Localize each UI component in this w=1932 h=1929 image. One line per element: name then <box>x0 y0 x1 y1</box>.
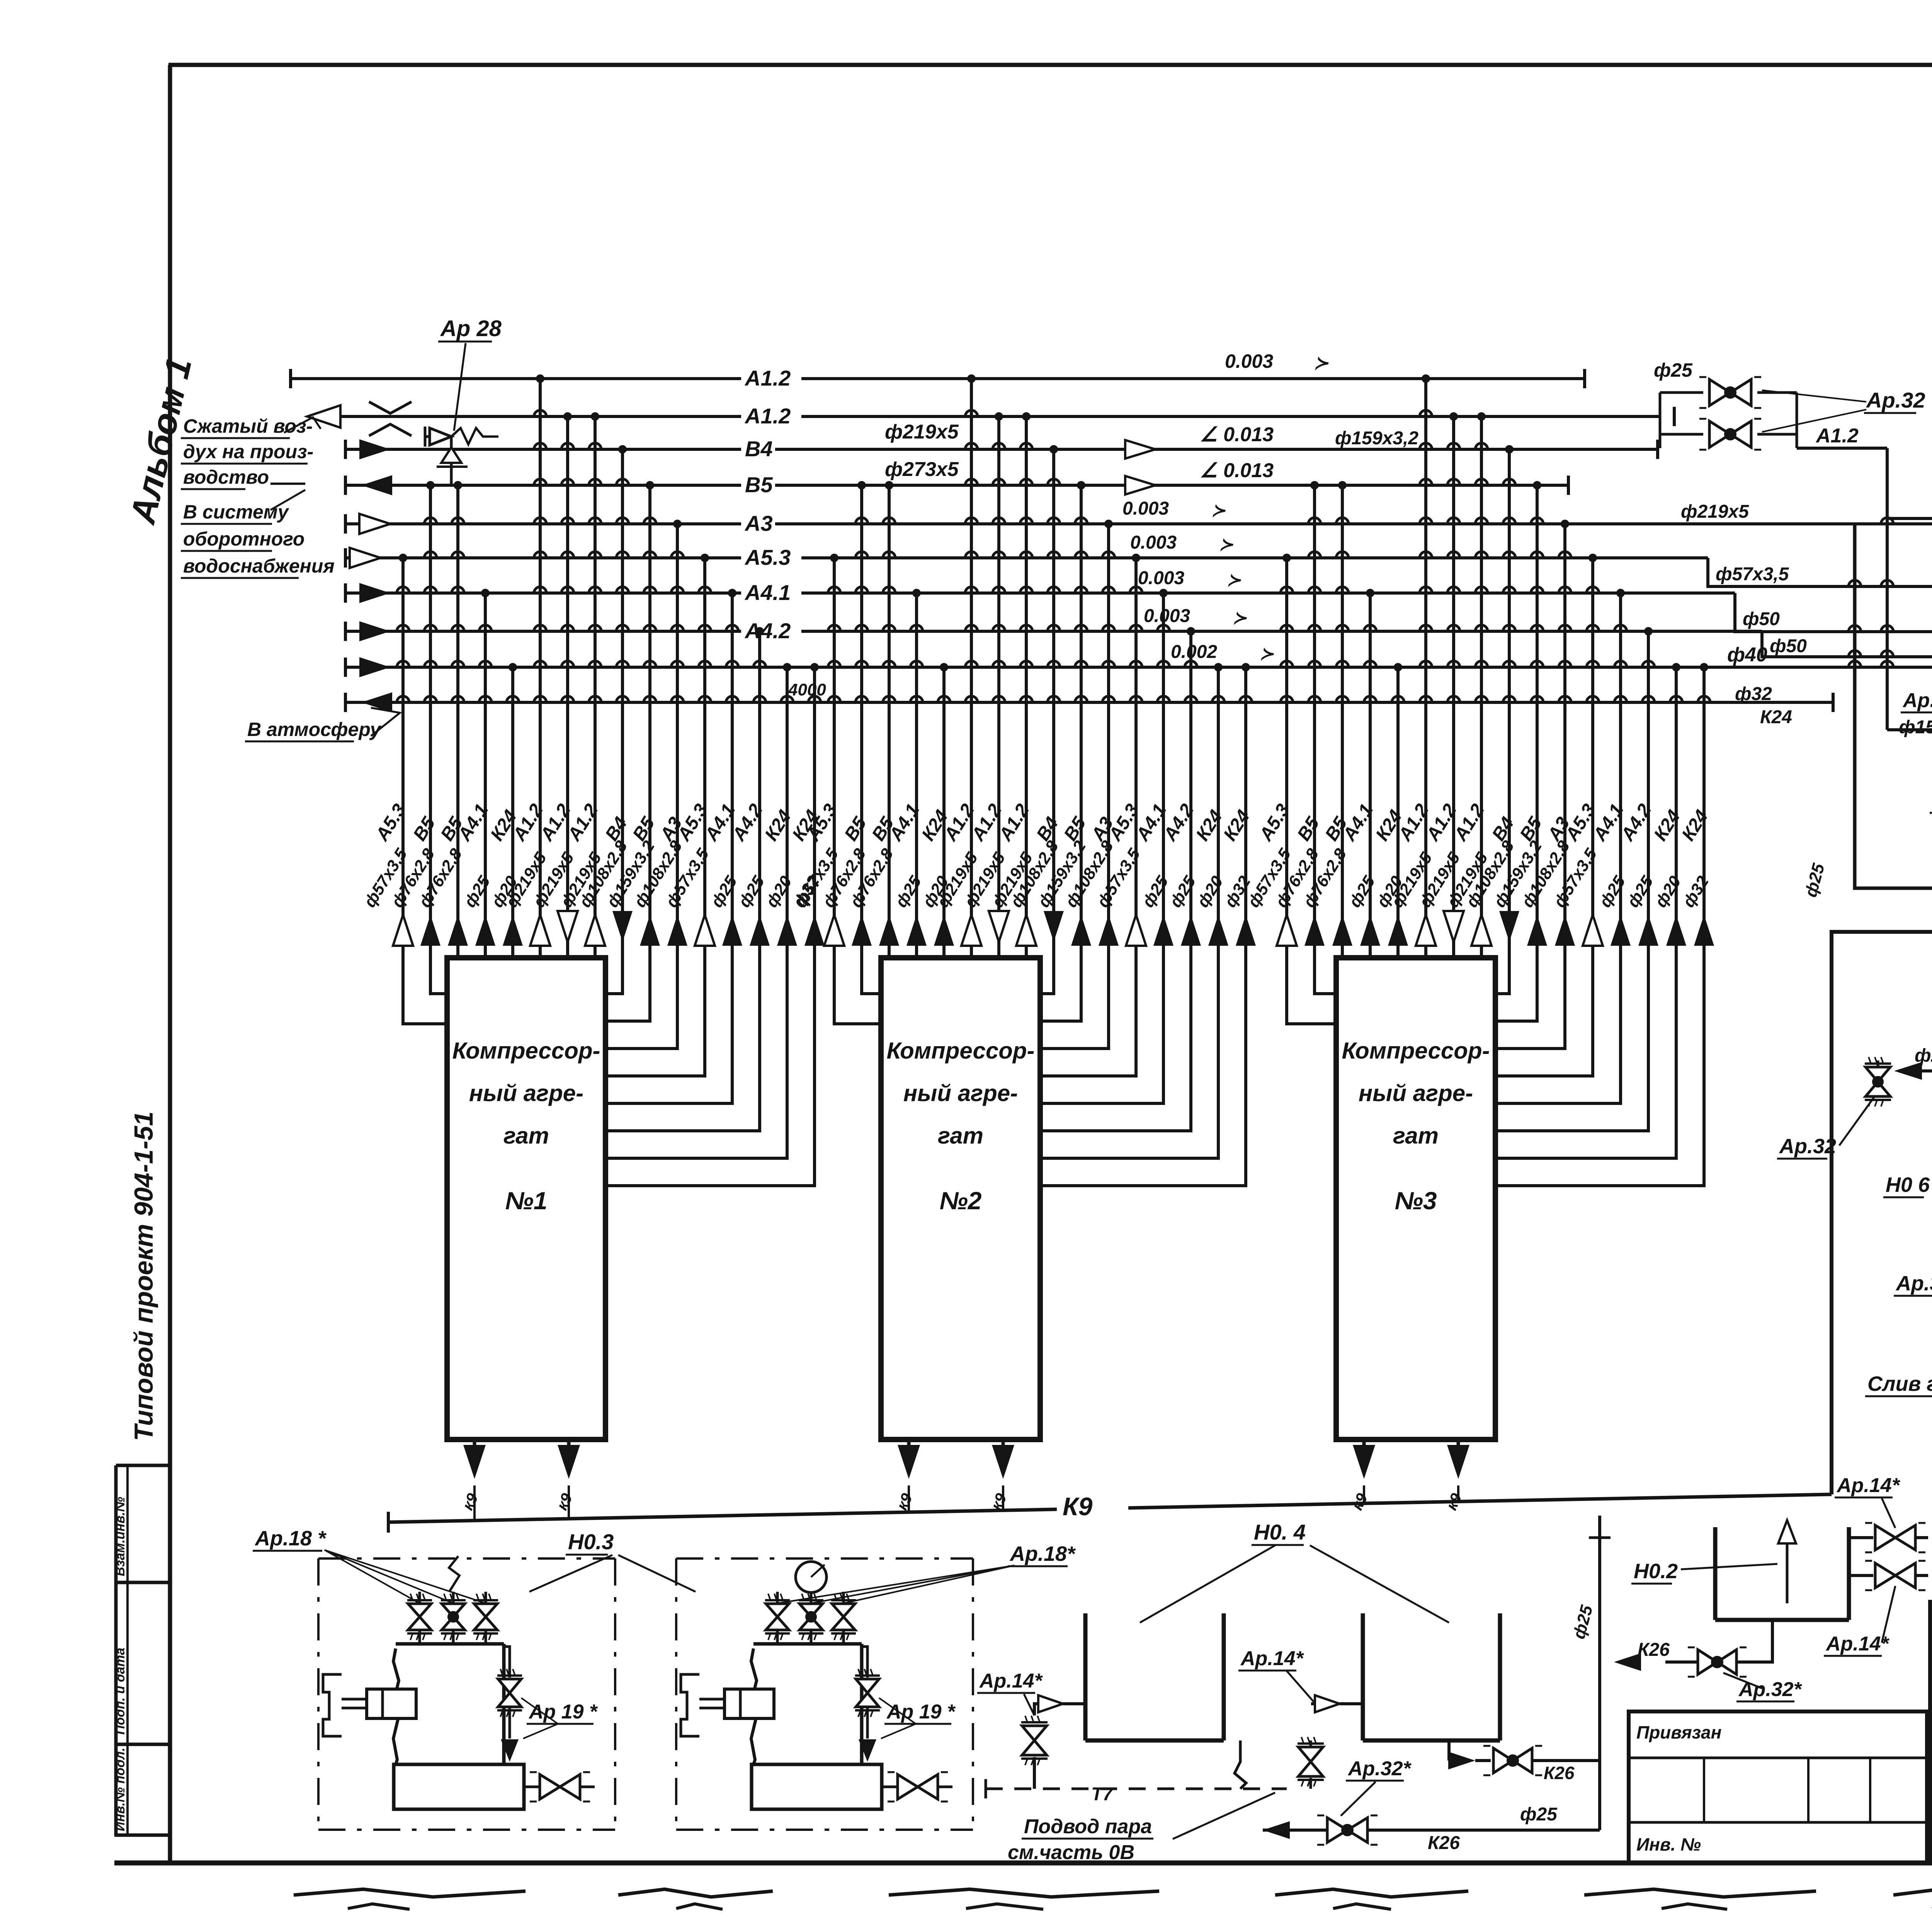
junction dot К24 <box>1242 663 1250 671</box>
drop line К24 unit 3 <box>1495 667 1676 1158</box>
crossing hops А1.2 <box>1020 443 1032 449</box>
drive piston <box>323 1674 342 1736</box>
flow arrow К24 unit 2 <box>1236 915 1256 946</box>
svg-text:4000: 4000 <box>788 680 826 699</box>
pipe А1.2 to tank Н0.8 <box>1797 447 1887 450</box>
junction dot А4.2 <box>1187 627 1195 636</box>
svg-text:Т7: Т7 <box>1091 1784 1114 1805</box>
junction dot А5.3 <box>1282 554 1291 562</box>
flow arrow К24 unit 3 <box>1388 915 1408 946</box>
drop line В5 unit 2 <box>862 485 881 994</box>
flow arrow А4.2 unit 1 <box>750 915 770 946</box>
svg-text:Компрессор-: Компрессор- <box>1342 1038 1490 1064</box>
frame bottom border <box>114 1861 1932 1866</box>
valve stems on compressor top <box>776 1631 779 1644</box>
junction dot А4.1 <box>481 589 490 597</box>
flow arrow В5 unit 1 <box>448 915 468 946</box>
pipe line А1.2 (top header) <box>291 377 1585 380</box>
flow arrow В5 unit 1 <box>420 915 440 946</box>
svg-text:Компрессор-: Компрессор- <box>452 1038 600 1064</box>
line label А5.3 <box>741 544 801 569</box>
crossing hops К24 <box>1698 696 1710 702</box>
flow arrow А4.2 unit 2 <box>1181 915 1201 946</box>
junction dot А1.2 <box>995 412 1003 421</box>
flow arrow В5 unit 2 <box>1071 915 1091 946</box>
pipe from К9 to pit <box>1832 932 1932 1494</box>
unit enclosure dash-dot box <box>676 1557 973 1560</box>
junction dot В5 <box>1077 481 1085 489</box>
drop line А4.1 unit 1 <box>484 593 487 958</box>
crossing hops А5.3 <box>1587 587 1599 593</box>
svg-text:ф25: ф25 <box>1915 1045 1932 1066</box>
crossing hops А5.3 <box>1130 587 1142 593</box>
tank Н0.6 inlet ф25 <box>1910 1069 1932 1072</box>
tank A drain pigtail <box>1235 1740 1246 1789</box>
steam valve Т8 <box>1849 1574 1873 1577</box>
svg-text:0.003: 0.003 <box>1130 532 1177 553</box>
junction dot А1.2 <box>1449 412 1458 421</box>
crossing hops А1.2 <box>1475 443 1488 449</box>
svg-text:К24: К24 <box>1760 707 1792 727</box>
drop line В5 unit 3 <box>1341 485 1344 958</box>
svg-text:≻: ≻ <box>1314 353 1329 373</box>
svg-text:≻: ≻ <box>1260 644 1274 663</box>
drop line А1.2 unit 1 <box>566 416 569 958</box>
svg-text:Ар.32: Ар.32 <box>1866 388 1925 412</box>
svg-text:Ар.32*: Ар.32* <box>1347 1757 1412 1780</box>
junction dot К24 <box>1672 663 1680 671</box>
crossing hops К24 <box>1392 696 1404 702</box>
crossing hops В4 <box>616 479 629 485</box>
svg-text:ф219х5: ф219х5 <box>885 421 959 443</box>
svg-text:Ар.31: Ар.31 <box>1895 1272 1932 1295</box>
drop line В4 unit 1 <box>605 449 622 994</box>
valve stems on compressor top <box>418 1631 421 1644</box>
svg-text:∠ 0.013: ∠ 0.013 <box>1200 459 1274 482</box>
flow arrow А4.1 unit 2 <box>906 915 927 946</box>
svg-text:А1.2: А1.2 <box>744 404 791 428</box>
drop line А1.2 unit 3 <box>1452 416 1455 958</box>
svg-text:№3: №3 <box>1395 1187 1437 1215</box>
condensate tank Н0.2 <box>1713 1527 1718 1620</box>
pipe line to atmosphere <box>345 701 1833 704</box>
svg-text:Ар 19 *: Ар 19 * <box>528 1701 598 1723</box>
drop line А5.3 unit 3 <box>1495 558 1593 1076</box>
drop line А1.2 unit 2 <box>1025 416 1028 958</box>
discharge valve Ар.19 <box>501 1644 502 1677</box>
flow arrow А4.2 <box>359 621 390 641</box>
compressor unit box №1 <box>447 958 605 1440</box>
svg-text:0.003: 0.003 <box>1122 498 1169 519</box>
svg-text:гат: гат <box>503 1123 549 1149</box>
drop line А4.1 unit 1 <box>605 593 732 1103</box>
line label В5 <box>741 471 775 496</box>
flow arrow А3 unit 2 <box>1099 915 1119 946</box>
flow arrow В5 unit 3 <box>1527 915 1547 946</box>
crossing hops А4.1 <box>910 625 923 631</box>
svg-text:Ар.18 *: Ар.18 * <box>254 1527 327 1550</box>
flow arrow to atmosphere <box>361 692 392 712</box>
drop line А3 unit 2 <box>1040 524 1109 1049</box>
crossing hops А5.3 <box>1281 587 1293 593</box>
compressor unit box №3 <box>1336 958 1495 1440</box>
svg-text:К26: К26 <box>1428 1833 1460 1853</box>
line label А3 <box>741 510 775 535</box>
flow arrow В4 unit 1 <box>612 911 633 942</box>
svg-text:Типовой проект 904-1-51: Типовой проект 904-1-51 <box>129 1112 158 1441</box>
svg-text:ный агре-: ный агре- <box>469 1080 583 1106</box>
svg-text:Привязан: Привязан <box>1636 1722 1721 1742</box>
flow arrow А4.2 unit 3 <box>1638 915 1658 946</box>
crossing mark <box>369 402 412 413</box>
drain stub К9 unit №2 <box>1002 1440 1005 1445</box>
pipe line А4.2 <box>345 630 1762 633</box>
К26 lower line <box>1263 1829 1600 1832</box>
junction dot А1.2 <box>1477 412 1486 421</box>
svg-text:ф50: ф50 <box>1770 636 1807 656</box>
svg-text:А1.2: А1.2 <box>744 366 791 390</box>
line label А4.1 <box>741 579 801 604</box>
junction dot А4.1 <box>1366 589 1374 597</box>
svg-text:А5.3: А5.3 <box>744 545 791 569</box>
svg-text:№1: №1 <box>505 1187 548 1215</box>
line label А1.2 <box>741 403 801 427</box>
flow arrow К24 <box>359 657 390 677</box>
flow arrow В4 unit 2 <box>1044 911 1064 942</box>
svg-text:Взам.инв.№: Взам.инв.№ <box>113 1497 128 1576</box>
drop line К24 unit 2 <box>1040 667 1246 1186</box>
crossing hops А3 <box>1559 552 1571 558</box>
left margin stamp boxes <box>114 1465 118 1835</box>
branch ф25 with valves Ар.32 <box>1673 407 1676 426</box>
svg-text:Инв.№ подл.: Инв.№ подл. <box>113 1747 128 1831</box>
junction dot А3 <box>1104 520 1113 528</box>
drain stub К9 unit №3 <box>1362 1440 1366 1445</box>
pipe А1.2 branch to Н0.10 <box>1886 518 1889 730</box>
valve Ар.14 into tank B <box>1315 1695 1340 1712</box>
drop line А4.1 unit 3 <box>1495 593 1621 1103</box>
flow arrow А1.2 unit 1 <box>585 915 605 946</box>
junction dot А5.3 <box>399 554 407 562</box>
flow arrow А4.1 unit 2 <box>1153 915 1173 946</box>
svg-text:Ар.18*: Ар.18* <box>1009 1542 1076 1565</box>
junction dot К24 <box>1214 663 1223 671</box>
junction dot В4 <box>1049 445 1058 454</box>
line label А4.2 <box>741 617 801 642</box>
svg-text:ный агре-: ный агре- <box>903 1080 1018 1106</box>
svg-text:дух на произ-: дух на произ- <box>183 441 313 462</box>
receiver outlet valve <box>524 1786 539 1788</box>
junction dot В4 <box>618 445 627 454</box>
drop line В5 unit 3 <box>1495 485 1537 1021</box>
flow arrow А5.3 unit 2 <box>824 915 844 946</box>
junction dot А1.2 <box>967 374 976 383</box>
flow arrow А1.2 unit 3 <box>1471 915 1492 946</box>
drop line А1.2 unit 1 <box>594 416 597 958</box>
drop line А5.3 unit 1 <box>403 558 447 1024</box>
svg-text:В атмосферу: В атмосферу <box>247 719 382 740</box>
drop line А3 unit 3 <box>1495 524 1565 1049</box>
valve on riser tank A <box>1022 1726 1047 1740</box>
drop line В5 unit 1 <box>456 485 459 958</box>
drop line В5 unit 1 <box>430 485 447 994</box>
crossing hops К24 <box>1670 696 1682 702</box>
junction dot В5 <box>426 481 435 489</box>
flow arrow А1.2 unit 2 <box>1016 915 1036 946</box>
oil receiver tank <box>394 1764 524 1809</box>
svg-text:0.003: 0.003 <box>1138 568 1184 588</box>
flow arrow А4.1 unit 1 <box>722 915 742 946</box>
flow arrow А3 <box>359 514 390 534</box>
svg-text:Н0.2: Н0.2 <box>1634 1560 1678 1583</box>
junction dot В5 <box>646 481 654 489</box>
svg-text:Ар.12: Ар.12 <box>1902 689 1932 712</box>
drain stub К9 unit №3 <box>1457 1440 1460 1445</box>
junction dot А4.1 <box>912 589 921 597</box>
junction dot В5 <box>885 481 893 489</box>
flow arrow В5 unit 2 <box>879 915 899 946</box>
valve Ар.32 fill <box>1877 1061 1879 1071</box>
drop line К24 unit 2 <box>942 667 946 958</box>
drop line А5.3 unit 1 <box>605 558 705 1076</box>
svg-text:Ар.14*: Ар.14* <box>1240 1647 1304 1670</box>
svg-text:0.003: 0.003 <box>1225 350 1273 372</box>
pipe line А5.3 <box>345 556 1708 559</box>
svg-text:А4.1: А4.1 <box>744 580 791 605</box>
flow arrow А4.1 <box>359 583 390 603</box>
drop line В5 unit 2 <box>888 485 891 958</box>
water tank Н0.4 second <box>1361 1613 1365 1740</box>
drop line К24 unit 1 <box>605 667 815 1186</box>
crossing hops А3 <box>1102 552 1115 558</box>
flow arrow А1.2 unit 3 <box>1444 911 1464 942</box>
junction dot К24 <box>1700 663 1708 671</box>
crossing hops В4 <box>1048 479 1060 485</box>
svg-text:Н0. 4: Н0. 4 <box>1254 1520 1306 1544</box>
compressor body <box>751 1649 757 1764</box>
svg-text:В систему: В систему <box>183 501 289 523</box>
junction dot А4.1 <box>1159 589 1168 597</box>
flow arrow К24 unit 1 <box>503 915 523 946</box>
frame top border <box>168 63 1932 67</box>
svg-text:Ар 28: Ар 28 <box>440 316 502 341</box>
svg-text:ф32: ф32 <box>1735 684 1772 704</box>
junction dot А5.3 <box>1588 554 1597 562</box>
crossing hops А4.1 <box>1157 625 1170 631</box>
junction dot В5 <box>454 481 462 489</box>
svg-text:оборотного: оборотного <box>183 528 304 550</box>
svg-text:Ар.14*: Ар.14* <box>1836 1474 1901 1497</box>
flow arrow А4.1 unit 3 <box>1611 915 1631 946</box>
junction dot В5 <box>857 481 866 489</box>
flow arrow А5.3 unit 3 <box>1277 915 1297 946</box>
flow arrow К24 unit 3 <box>1694 915 1714 946</box>
crossing hops А1.2 <box>561 443 574 449</box>
svg-text:Ар.14*: Ар.14* <box>1825 1633 1890 1655</box>
flow arrow А5.3 unit 3 <box>1583 915 1603 946</box>
svg-text:Подвод пара: Подвод пара <box>1024 1815 1152 1838</box>
pipe from А3 to pit <box>1855 524 1932 888</box>
crossing hops В5 <box>855 518 868 524</box>
svg-text:гат: гат <box>938 1123 983 1149</box>
flow arrow А5.3 unit 1 <box>695 915 715 946</box>
crossing hops В4 <box>1503 479 1515 485</box>
valve Ар.14 into tank A <box>1038 1695 1063 1712</box>
drain stub К9 unit №1 <box>473 1440 476 1445</box>
inlet arrow compressed air <box>307 405 340 428</box>
drop line К24 unit 1 <box>605 667 787 1158</box>
flow arrow В5 unit 2 <box>852 915 872 946</box>
squiggle mark <box>449 1556 459 1591</box>
crossing hops А4.2 <box>753 661 766 667</box>
pipe line В4 <box>345 448 1658 451</box>
drop line В5 unit 3 <box>1315 485 1336 994</box>
steam dashed line Т7 bottom <box>986 1788 1287 1790</box>
drop line К24 unit 1 <box>511 667 514 958</box>
crossing hops А1.2 <box>589 443 601 449</box>
junction dot А1.2 <box>563 412 572 421</box>
crossing hops А4.1 <box>726 625 738 631</box>
flow arrow А1.2 unit 3 <box>1416 915 1436 946</box>
pipe line А1.2 (second header) <box>325 415 1660 418</box>
drop line А4.2 unit 2 <box>1040 631 1191 1131</box>
junction dot В5 <box>1533 481 1541 489</box>
crossing hops А3 <box>671 552 684 558</box>
signature table <box>1930 1602 1932 1863</box>
svg-text:0.003: 0.003 <box>1144 606 1190 626</box>
riser into tank B with valve <box>1383 1704 1384 1715</box>
svg-text:ф50: ф50 <box>1743 609 1780 629</box>
drop line В4 unit 3 <box>1495 449 1509 994</box>
steam valve Т7 <box>1849 1536 1873 1539</box>
flow arrow А4.1 unit 1 <box>475 915 495 946</box>
flow arrow К24 unit 3 <box>1666 915 1686 946</box>
junction dot А5.3 <box>1132 554 1140 562</box>
crossing hops А1.2 <box>1447 443 1460 449</box>
water tank Н0.4 first <box>1083 1613 1088 1740</box>
crossing hops on step lines <box>1849 580 1861 586</box>
svg-text:≻: ≻ <box>1219 535 1233 554</box>
drop line А4.1 unit 2 <box>915 593 918 958</box>
riser ф25 down from К9 <box>1598 1516 1601 1830</box>
junction dot А3 <box>1561 520 1569 528</box>
svg-text:Ар 19 *: Ар 19 * <box>886 1701 956 1723</box>
flow arrow К24 unit 2 <box>934 915 954 946</box>
svg-text:ф219х5: ф219х5 <box>1681 501 1749 522</box>
svg-text:А1.2: А1.2 <box>1815 425 1859 447</box>
flow arrow А5.3 <box>350 548 381 568</box>
flow arrow А1.2 unit 1 <box>558 911 578 942</box>
drop line А1.2 unit 2 <box>997 416 1000 958</box>
flow arrow А3 unit 1 <box>667 915 687 946</box>
crossing hops К24 <box>507 696 519 702</box>
open arrow В5 mid <box>1125 476 1155 495</box>
crossing hops А4.2 <box>1185 661 1197 667</box>
svg-text:водство: водство <box>183 466 269 488</box>
pipe line В5 <box>345 484 1568 487</box>
junction dot В5 <box>1338 481 1347 489</box>
К26 upper line <box>1447 1740 1451 1761</box>
svg-text:водоснабжения: водоснабжения <box>183 555 335 577</box>
flow arrow К24 unit 2 <box>1208 915 1228 946</box>
project link box Привязан <box>1629 1711 1927 1863</box>
oil receiver tank <box>752 1764 882 1809</box>
drop line А1.2 unit 3 <box>1424 379 1427 958</box>
valve hanging tank A <box>1298 1747 1323 1762</box>
junction dot А4.2 <box>1644 627 1653 636</box>
junction dot А5.3 <box>830 554 838 562</box>
svg-text:ф15: ф15 <box>1899 717 1932 738</box>
junction dot К24 <box>810 663 819 671</box>
crossing hops А4.1 <box>1364 625 1376 631</box>
svg-text:К26: К26 <box>1544 1763 1575 1783</box>
flow arrow А1.2 unit 2 <box>989 911 1009 942</box>
drop line К24 unit 3 <box>1396 667 1400 958</box>
compressor body <box>393 1649 399 1764</box>
pipe line А3 <box>345 522 1932 525</box>
drop line А5.3 unit 2 <box>834 558 881 1024</box>
svg-text:ф159х3,2: ф159х3,2 <box>1335 428 1418 449</box>
svg-text:см.часть 0В: см.часть 0В <box>1008 1841 1134 1864</box>
junction dot В4 <box>1505 445 1514 454</box>
crossing hops А5.3 <box>397 587 409 593</box>
crossing hops А5.3 <box>828 587 840 593</box>
svg-text:В4: В4 <box>745 437 773 461</box>
svg-text:ный агре-: ный агре- <box>1359 1080 1473 1106</box>
svg-text:А3: А3 <box>744 511 773 535</box>
svg-text:ф273х5: ф273х5 <box>885 458 959 481</box>
drive piston <box>681 1674 699 1736</box>
crossing hops А1.2 <box>965 410 978 416</box>
drop line А4.1 unit 2 <box>1040 593 1163 1103</box>
flow arrow К24 unit 1 <box>804 915 825 946</box>
crossing hops А4.1 <box>1614 625 1627 631</box>
crossing hops К24 <box>1212 696 1225 702</box>
flow arrow К24 unit 1 <box>777 915 797 946</box>
crossing hops К24 <box>781 696 793 702</box>
junction dot В5 <box>1310 481 1319 489</box>
svg-text:ф57х3,5: ф57х3,5 <box>1716 564 1789 585</box>
crossing hops А5.3 <box>699 587 711 593</box>
svg-text:А4.2: А4.2 <box>744 619 791 643</box>
junction dot А1.2 <box>1422 374 1430 383</box>
label К9 <box>1057 1487 1128 1524</box>
crossing hops К24 <box>808 696 821 702</box>
crossing hops А1.2 <box>993 443 1005 449</box>
crossing hops В5 <box>883 518 895 524</box>
svg-text:В5: В5 <box>745 472 773 497</box>
flow arrow В4 <box>359 439 390 459</box>
svg-text:К26: К26 <box>1638 1640 1670 1660</box>
svg-text:ф25: ф25 <box>1520 1804 1558 1825</box>
pipe А4.1 ф50 to tank <box>1735 535 1932 632</box>
drain stub К9 unit №2 <box>907 1440 911 1445</box>
svg-text:Компрессор-: Компрессор- <box>886 1038 1034 1064</box>
drop line А1.2 unit 2 <box>970 379 973 958</box>
flow arrow А5.3 unit 1 <box>393 915 413 946</box>
svg-text:≻: ≻ <box>1211 501 1226 520</box>
flow arrow В5 <box>361 475 392 495</box>
crossing hops А4.1 <box>479 625 492 631</box>
svg-text:№2: №2 <box>940 1187 982 1215</box>
pressure gauge on unit <box>796 1562 827 1592</box>
drop line А5.3 unit 3 <box>1287 558 1336 1024</box>
frame left border <box>168 65 172 1863</box>
svg-text:Ар.32: Ар.32 <box>1779 1135 1836 1158</box>
tank Н0.2 drain to К26 <box>1737 1620 1772 1662</box>
flow arrow В4 unit 3 <box>1499 911 1519 942</box>
junction dot А4.1 <box>1616 589 1625 597</box>
